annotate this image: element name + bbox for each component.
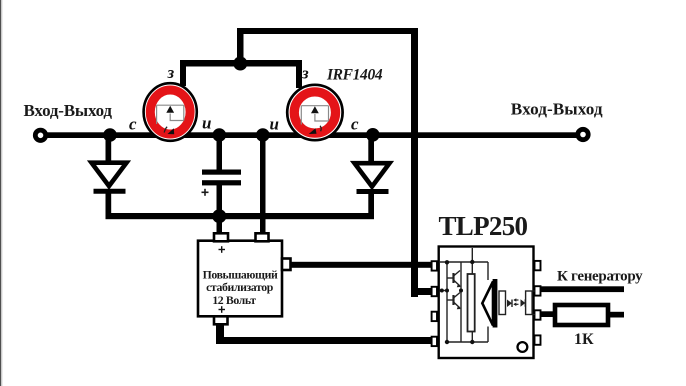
svg-text:с: с	[129, 115, 137, 134]
svg-text:IRF1404: IRF1404	[326, 67, 383, 84]
svg-text:Вход-Выход: Вход-Выход	[511, 99, 603, 118]
svg-text:TLP250: TLP250	[439, 211, 528, 241]
svg-text:с: с	[351, 115, 359, 134]
svg-text:и: и	[202, 114, 211, 133]
svg-text:з: з	[167, 63, 175, 82]
svg-text:Вход-Выход: Вход-Выход	[24, 101, 113, 120]
svg-text:и: и	[270, 115, 279, 134]
svg-text:12 Вольт: 12 Вольт	[212, 293, 256, 307]
svg-text:Повышающий: Повышающий	[203, 267, 278, 281]
svg-text:1К: 1К	[574, 331, 594, 348]
svg-text:з: з	[301, 64, 309, 83]
svg-text:К генератору: К генератору	[557, 269, 643, 285]
